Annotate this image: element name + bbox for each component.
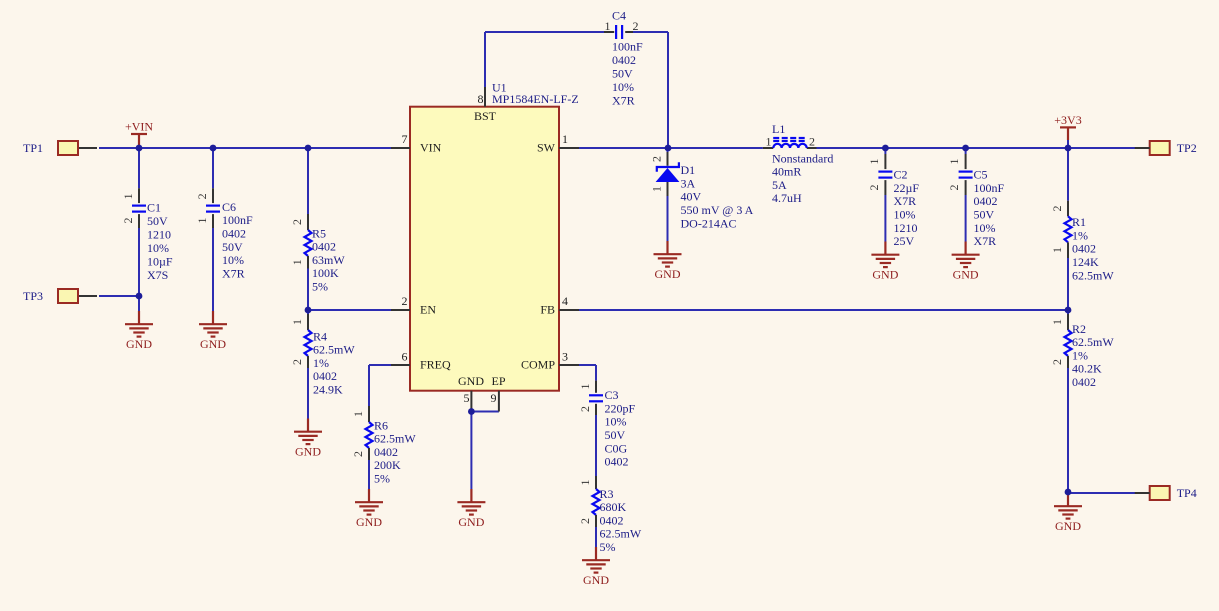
- svg-text:2: 2: [578, 518, 592, 524]
- svg-text:2: 2: [402, 294, 408, 308]
- svg-text:10%: 10%: [974, 221, 996, 235]
- svg-text:3: 3: [562, 349, 568, 363]
- svg-text:1: 1: [1050, 319, 1064, 325]
- svg-text:1: 1: [195, 218, 209, 224]
- svg-text:GND: GND: [295, 445, 321, 459]
- svg-text:1: 1: [1050, 247, 1064, 253]
- svg-text:100nF: 100nF: [612, 39, 643, 53]
- svg-text:1: 1: [562, 132, 568, 146]
- svg-text:FREQ: FREQ: [420, 357, 451, 371]
- svg-text:GND: GND: [458, 374, 484, 388]
- svg-text:1: 1: [290, 319, 304, 325]
- svg-text:0402: 0402: [312, 240, 336, 254]
- svg-text:GND: GND: [126, 337, 152, 351]
- svg-text:Nonstandard: Nonstandard: [772, 151, 833, 165]
- svg-text:9: 9: [491, 391, 497, 405]
- wire 3V3 rail: L1 to TP2: [817, 147, 1137, 149]
- svg-text:0402: 0402: [1072, 375, 1096, 389]
- svg-text:R3: R3: [600, 487, 614, 501]
- junction 3V3/C5: [962, 145, 969, 152]
- svg-text:62.5mW: 62.5mW: [374, 432, 416, 446]
- svg-text:1%: 1%: [1072, 228, 1088, 242]
- svg-text:X7R: X7R: [974, 234, 997, 248]
- ground R6: [355, 489, 383, 529]
- svg-text:1: 1: [605, 19, 611, 33]
- U1 pin 4 FB: [540, 294, 579, 316]
- svg-text:FB: FB: [540, 303, 555, 317]
- svg-text:C0G: C0G: [605, 441, 628, 455]
- svg-text:50V: 50V: [974, 208, 995, 222]
- test point TP2: [1135, 141, 1197, 155]
- svg-text:+VIN: +VIN: [125, 119, 153, 133]
- svg-text:1: 1: [578, 384, 592, 390]
- U1 pin 7 VIN: [391, 132, 442, 154]
- U1 pin 1 SW: [537, 132, 579, 154]
- ground C1: [125, 311, 153, 351]
- svg-text:R5: R5: [312, 226, 326, 240]
- junction VIN/C1: [136, 145, 143, 152]
- resistor R3: [578, 476, 642, 554]
- svg-text:GND: GND: [1055, 519, 1081, 533]
- svg-text:C3: C3: [605, 388, 619, 402]
- svg-text:2: 2: [195, 193, 209, 199]
- svg-text:EN: EN: [420, 303, 436, 317]
- svg-text:62.5mW: 62.5mW: [313, 343, 355, 357]
- svg-text:C4: C4: [612, 8, 626, 22]
- svg-text:6: 6: [402, 349, 408, 363]
- svg-text:1%: 1%: [313, 356, 329, 370]
- svg-text:GND: GND: [458, 515, 484, 529]
- ground EP: [457, 489, 485, 529]
- U1 pin 5 GND: [458, 374, 484, 411]
- svg-text:2: 2: [578, 406, 592, 412]
- test point TP4: [1135, 486, 1197, 500]
- svg-text:50V: 50V: [612, 66, 633, 80]
- U1 pin 6 FREQ: [391, 349, 451, 371]
- ground R3: [582, 547, 610, 587]
- svg-text:2: 2: [290, 219, 304, 225]
- svg-text:40mR: 40mR: [772, 165, 801, 179]
- svg-text:40V: 40V: [681, 190, 702, 204]
- svg-text:0402: 0402: [1072, 242, 1096, 256]
- capacitor C4: [604, 8, 643, 107]
- ground C5: [952, 242, 980, 282]
- svg-text:5%: 5%: [600, 540, 616, 554]
- svg-text:GND: GND: [200, 337, 226, 351]
- ground C6: [199, 311, 227, 351]
- svg-text:10%: 10%: [894, 208, 916, 222]
- junction R2/TP4: [1065, 489, 1072, 496]
- wire FB net: U1 pin 4 to R1/R2 node: [579, 309, 1068, 311]
- resistor R4: [290, 310, 355, 419]
- U1 pin 8 BST: [474, 87, 497, 123]
- svg-text:TP1: TP1: [23, 141, 43, 155]
- svg-text:X7R: X7R: [612, 93, 635, 107]
- wire SW net: U1 pin 1 to L1: [579, 147, 763, 149]
- svg-text:5%: 5%: [312, 280, 328, 294]
- svg-text:25V: 25V: [894, 234, 915, 248]
- svg-text:2: 2: [947, 185, 961, 191]
- svg-text:1%: 1%: [1072, 348, 1088, 362]
- svg-text:1: 1: [766, 134, 772, 148]
- svg-text:2: 2: [867, 185, 881, 191]
- svg-text:10µF: 10µF: [147, 254, 173, 268]
- svg-text:0402: 0402: [612, 53, 636, 67]
- power port +3V3: [1054, 113, 1081, 148]
- svg-text:EP: EP: [491, 374, 505, 388]
- wire COMP net: U1 pin 3 to C3: [579, 365, 596, 381]
- svg-text:1: 1: [867, 159, 881, 165]
- junction EN/R5/R4: [305, 307, 312, 314]
- test point TP3: [23, 289, 97, 303]
- svg-text:2: 2: [351, 451, 365, 457]
- U1 pin 9 EP: [491, 374, 506, 411]
- wire VIN rail TP1 to U1 pin 7: [99, 147, 391, 149]
- wire FREQ net: U1 pin 6 to R6: [369, 365, 391, 406]
- svg-text:D1: D1: [681, 163, 696, 177]
- svg-text:10%: 10%: [605, 415, 627, 429]
- capacitor C6: [195, 148, 253, 311]
- svg-text:200K: 200K: [374, 458, 401, 472]
- svg-text:2: 2: [1050, 359, 1064, 365]
- diode D1 schottky: [650, 148, 754, 241]
- junction VIN/C6: [210, 145, 217, 152]
- svg-text:BST: BST: [474, 109, 497, 123]
- svg-text:0402: 0402: [600, 513, 624, 527]
- junction GND/EP: [468, 408, 475, 415]
- U1 pin 2 EN: [391, 294, 436, 316]
- svg-text:TP3: TP3: [23, 289, 43, 303]
- capacitor C5: [947, 148, 1004, 248]
- capacitor C1: [121, 148, 173, 311]
- svg-text:GND: GND: [356, 515, 382, 529]
- svg-text:1: 1: [650, 186, 664, 192]
- svg-text:2: 2: [809, 134, 815, 148]
- svg-text:5A: 5A: [772, 178, 787, 192]
- svg-text:TP4: TP4: [1177, 486, 1197, 500]
- svg-text:100K: 100K: [312, 266, 339, 280]
- U1 pin 3 COMP: [521, 349, 579, 371]
- svg-text:MP1584EN-LF-Z: MP1584EN-LF-Z: [492, 92, 579, 106]
- power port +VIN: [125, 119, 153, 146]
- svg-text:1: 1: [947, 159, 961, 165]
- resistor R2: [1050, 310, 1114, 492]
- svg-text:4: 4: [562, 294, 568, 308]
- svg-text:C2: C2: [894, 168, 908, 182]
- svg-text:1: 1: [121, 193, 135, 199]
- svg-text:R2: R2: [1072, 322, 1086, 336]
- svg-text:124K: 124K: [1072, 255, 1099, 269]
- svg-text:0402: 0402: [974, 194, 998, 208]
- svg-text:40.2K: 40.2K: [1072, 362, 1102, 376]
- svg-text:10%: 10%: [147, 241, 169, 255]
- svg-text:X7R: X7R: [894, 194, 917, 208]
- svg-text:GND: GND: [583, 573, 609, 587]
- svg-text:5%: 5%: [374, 472, 390, 486]
- ground D1: [654, 241, 682, 281]
- svg-text:GND: GND: [953, 268, 979, 282]
- svg-text:680K: 680K: [600, 500, 627, 514]
- svg-text:R4: R4: [313, 329, 327, 343]
- svg-text:2: 2: [1050, 206, 1064, 212]
- ground R2 TP4 node: [1054, 493, 1082, 533]
- svg-text:1: 1: [290, 259, 304, 265]
- svg-text:63mW: 63mW: [312, 253, 345, 267]
- svg-text:1: 1: [578, 480, 592, 486]
- svg-text:22µF: 22µF: [894, 181, 920, 195]
- wire TP3 to C1 column: [99, 295, 139, 297]
- svg-text:100nF: 100nF: [222, 213, 253, 227]
- wire TP4 net: [1068, 492, 1136, 494]
- svg-text:8: 8: [478, 92, 484, 106]
- svg-text:R6: R6: [374, 418, 388, 432]
- svg-text:3A: 3A: [681, 176, 696, 190]
- svg-text:100nF: 100nF: [974, 181, 1005, 195]
- svg-text:4.7uH: 4.7uH: [772, 191, 802, 205]
- wire BST net: pin 8 up, across to C4, down to SW node: [485, 32, 668, 148]
- svg-text:50V: 50V: [147, 214, 168, 228]
- svg-text:0402: 0402: [222, 227, 246, 241]
- svg-text:10%: 10%: [612, 80, 634, 94]
- ground R4: [294, 419, 322, 459]
- svg-text:50V: 50V: [222, 240, 243, 254]
- svg-text:2: 2: [650, 156, 664, 162]
- svg-text:1: 1: [351, 411, 365, 417]
- svg-text:550 mV @ 3 A: 550 mV @ 3 A: [681, 203, 754, 217]
- svg-text:+3V3: +3V3: [1054, 113, 1081, 127]
- svg-text:X7R: X7R: [222, 266, 245, 280]
- ground C2: [871, 242, 899, 282]
- junction 3V3/R1: [1065, 145, 1072, 152]
- capacitor C2: [867, 148, 920, 248]
- wire EP/GND pins to ground: [471, 412, 499, 490]
- svg-text:50V: 50V: [605, 428, 626, 442]
- junction VIN/R5: [305, 145, 312, 152]
- resistor R1: [1050, 148, 1114, 310]
- wire EN net: R5/R4 node to U1 pin 2: [308, 309, 391, 311]
- resistor R5: [290, 148, 345, 310]
- svg-text:DO-214AC: DO-214AC: [681, 216, 737, 230]
- svg-text:2: 2: [633, 19, 639, 33]
- svg-text:220pF: 220pF: [605, 401, 636, 415]
- svg-text:0402: 0402: [605, 455, 629, 469]
- svg-text:62.5mW: 62.5mW: [1072, 335, 1114, 349]
- svg-text:62.5mW: 62.5mW: [600, 527, 642, 541]
- svg-text:0402: 0402: [313, 369, 337, 383]
- svg-text:TP2: TP2: [1177, 141, 1197, 155]
- test point TP1: [23, 141, 97, 155]
- junction SW/D1: [665, 145, 672, 152]
- svg-text:2: 2: [121, 218, 135, 224]
- svg-text:7: 7: [402, 132, 408, 146]
- svg-text:R1: R1: [1072, 215, 1086, 229]
- inductor L1: [763, 122, 833, 205]
- svg-text:COMP: COMP: [521, 357, 555, 371]
- junction 3V3/C2: [882, 145, 889, 152]
- svg-text:62.5mW: 62.5mW: [1072, 268, 1114, 282]
- svg-text:L1: L1: [772, 122, 785, 136]
- svg-text:C6: C6: [222, 200, 236, 214]
- svg-text:5: 5: [464, 391, 470, 405]
- svg-text:1210: 1210: [147, 227, 171, 241]
- resistor R6: [351, 406, 416, 489]
- svg-text:VIN: VIN: [420, 140, 442, 154]
- junction TP3/C1: [136, 293, 143, 300]
- svg-text:10%: 10%: [222, 253, 244, 267]
- svg-text:C5: C5: [974, 168, 988, 182]
- svg-text:C1: C1: [147, 200, 161, 214]
- svg-text:0402: 0402: [374, 445, 398, 459]
- svg-text:24.9K: 24.9K: [313, 383, 343, 397]
- junction FB/R1/R2: [1065, 307, 1072, 314]
- svg-text:GND: GND: [655, 267, 681, 281]
- svg-text:GND: GND: [872, 268, 898, 282]
- capacitor C3: [578, 381, 636, 476]
- svg-text:2: 2: [290, 359, 304, 365]
- svg-text:1210: 1210: [894, 221, 918, 235]
- svg-text:X7S: X7S: [147, 268, 168, 282]
- svg-text:SW: SW: [537, 140, 556, 154]
- IC U1 MP1584EN-LF-Z body: [410, 80, 579, 390]
